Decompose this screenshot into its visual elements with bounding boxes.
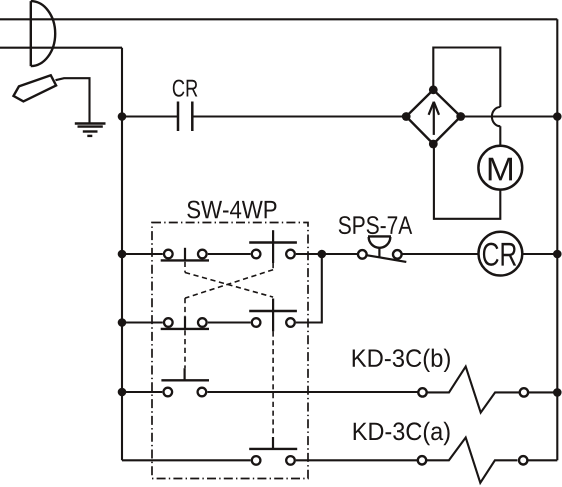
- wire row1 segment c: [461, 115, 558, 117]
- pushbutton contact NC bottom-left: [161, 316, 209, 329]
- pushbutton contact NC top-left: [161, 248, 209, 261]
- rectifier bridge D1: [406, 90, 461, 144]
- mechanical linkage X: [185, 270, 273, 298]
- wire top rail: [0, 18, 557, 20]
- wire right bus: [556, 19, 558, 460]
- wire bridge top branch: [433, 48, 500, 108]
- ground plug blade: [14, 75, 57, 101]
- pushbutton contact NO row4: [161, 368, 209, 396]
- label SPS-7A: [339, 216, 413, 234]
- wire row1 segment a: [122, 115, 178, 117]
- wire row1 segment b: [192, 115, 406, 117]
- wire row4 segment c: [529, 391, 557, 393]
- wire left bus: [121, 48, 123, 461]
- thermal breaker KD-3C(a): [418, 438, 528, 483]
- motor M1: [478, 146, 522, 190]
- pushbutton contact NO row5: [249, 437, 297, 465]
- wire row2 segment d: [322, 253, 358, 255]
- mechanical linkage left vertical: [184, 262, 186, 368]
- label KD-3C(b): [353, 349, 450, 372]
- junction dot row4 left: [118, 388, 127, 397]
- node dot bridge left: [402, 112, 411, 121]
- wire row5 segment c: [527, 459, 557, 461]
- relay coil CR: [479, 232, 523, 276]
- thermal breaker KD-3C(b): [418, 367, 528, 413]
- ground symbol: [75, 124, 106, 136]
- wire hop to motor: [499, 126, 501, 146]
- label CR: [173, 80, 198, 97]
- junction dot row1 right: [553, 112, 562, 121]
- junction dot row2 right: [553, 250, 562, 259]
- wire motor bottom branch: [434, 144, 500, 219]
- wire row2 segment f: [522, 253, 557, 255]
- bridge arrow: [429, 102, 439, 135]
- wire L2 rail: [0, 47, 122, 49]
- enclosure SW-4WP: [152, 223, 308, 479]
- wire row2 segment c: [296, 253, 322, 255]
- wire row5 segment b: [296, 459, 417, 461]
- node dot bridge top: [429, 85, 438, 94]
- wire row2 segment b: [208, 253, 251, 255]
- node dot bridge right: [456, 112, 465, 121]
- wire row2 segment a: [122, 253, 163, 255]
- wire row5 segment a: [122, 459, 251, 461]
- label SW-4WP: [187, 201, 276, 219]
- wire row4 segment a: [122, 391, 162, 393]
- AC plug P1: [31, 1, 55, 66]
- junction dot row2 left: [118, 250, 127, 259]
- wire blade to ground: [56, 78, 90, 123]
- label KD-3C(a): [354, 422, 450, 445]
- wire hop over row1: [492, 107, 500, 126]
- wire row4 segment b: [207, 391, 417, 393]
- junction dot row1 left: [118, 112, 127, 121]
- pushbutton contact NO bottom-right: [249, 299, 297, 332]
- junction dot row2 mid: [318, 250, 327, 259]
- pushbutton contact NO top-right: [249, 230, 297, 263]
- wire row3 segment b: [208, 321, 251, 323]
- wire row2 segment e: [402, 253, 478, 255]
- pressure switch SPS-7A: [358, 236, 406, 262]
- junction dot row3 left: [118, 318, 127, 327]
- junction dot row4 right: [553, 388, 562, 397]
- relay contact CR (NO): [178, 102, 192, 132]
- wire row3 to row2: [296, 254, 322, 323]
- node dot bridge bottom: [429, 140, 438, 149]
- wire row3 segment a: [122, 321, 163, 323]
- mechanical linkage right vertical: [272, 263, 274, 437]
